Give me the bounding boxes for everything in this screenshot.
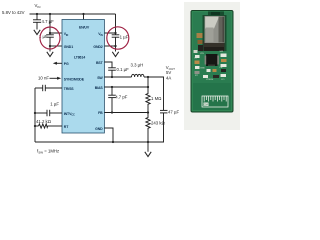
junction (C6 top)	[111, 86, 113, 88]
wire to left ground	[49, 46, 51, 52]
capacitor C5 0.1uF BST	[104, 62, 129, 77]
junction (BST cap on SW)	[111, 76, 113, 78]
svg-text:1 MΩ: 1 MΩ	[151, 96, 161, 101]
wire EN/UV drop	[83, 14, 85, 20]
wire to right ground	[115, 46, 117, 52]
inductor shadow	[203, 15, 227, 51]
photo backdrop	[184, 2, 240, 130]
capacitor CIN 4.7uF	[33, 14, 54, 30]
arrow into SYNC/MODE	[50, 77, 62, 80]
wire VIN rail	[30, 13, 116, 15]
svg-text:243 kΩ: 243 kΩ	[151, 120, 165, 125]
svg-text:5V: 5V	[166, 70, 171, 75]
arrow PG output	[53, 62, 62, 65]
svg-text:5.8V to 42V: 5.8V to 42V	[2, 10, 25, 15]
junction (C6 bottom)	[111, 111, 113, 113]
capacitor C3 10nF TR/SS	[35, 85, 62, 91]
svg-text:EN/UV: EN/UV	[79, 25, 90, 29]
capacitor COUT 47uF	[160, 109, 179, 142]
svg-text:4.7 pF: 4.7 pF	[115, 95, 128, 100]
capacitor C2 1uF right hot loop	[112, 33, 129, 46]
IC U1 LT8614	[62, 20, 104, 134]
resistor R2 1M	[146, 87, 162, 113]
svg-text:BIAS: BIAS	[95, 86, 104, 90]
junction (rail EN/UV)	[82, 13, 84, 15]
wire VOUT to BIAS	[147, 77, 149, 87]
label fSW = 1MHz	[37, 149, 59, 155]
scattered passives and silkscreen	[195, 55, 200, 58]
silkscreen text specks	[194, 51, 225, 81]
svg-text:1 µF: 1 µF	[50, 102, 59, 107]
PCB board	[191, 11, 233, 113]
svg-text:4.7 µF: 4.7 µF	[42, 19, 55, 24]
svg-text:GND1: GND1	[64, 45, 73, 49]
junction (rail left hot loop)	[49, 13, 51, 15]
wire GND2 row	[104, 45, 115, 47]
junction (GND stub on bus)	[112, 141, 114, 143]
resistor R3 243k	[146, 113, 165, 143]
svg-text:TR/SS: TR/SS	[64, 87, 74, 91]
svg-text:VIN: VIN	[200, 53, 204, 55]
svg-text:GND: GND	[95, 127, 103, 131]
svg-text:41.2 kΩ: 41.2 kΩ	[36, 119, 51, 124]
capacitor C1 1uF left hot loop	[39, 33, 54, 46]
svg-text:LT8614: LT8614	[206, 79, 214, 81]
hot loop highlight left	[40, 27, 60, 49]
wire VIN rail to left VIN pin	[50, 14, 62, 33]
ground (main)	[145, 142, 151, 157]
junction (right GND2)	[114, 45, 116, 47]
svg-text:SW: SW	[97, 76, 103, 80]
wire FB row	[104, 112, 148, 114]
inductor base	[204, 41, 225, 51]
wire BIAS row	[104, 86, 148, 88]
wire left ground rail	[34, 88, 36, 142]
svg-text:FB: FB	[98, 111, 103, 115]
IC chip	[206, 54, 218, 66]
junction (FB node)	[147, 111, 149, 113]
svg-text:BST: BST	[96, 61, 104, 65]
junction (BIAS-VOUT)	[147, 86, 149, 88]
wire GND1 row	[50, 45, 62, 47]
svg-text:3.3 µH: 3.3 µH	[131, 63, 144, 68]
capacitor C6 4.7pF feedforward	[108, 87, 128, 113]
photo: PCB module	[184, 2, 240, 130]
wire ground bus	[35, 141, 164, 143]
svg-text:1 µF: 1 µF	[120, 34, 129, 39]
svg-text:LT8614: LT8614	[74, 56, 85, 60]
hot loop highlight right	[107, 27, 129, 49]
inductor body	[205, 16, 225, 43]
junction (left GND1)	[49, 45, 51, 47]
svg-text:PG: PG	[64, 62, 69, 66]
svg-text:47 µF: 47 µF	[168, 109, 179, 114]
label VOUT 5V 4A	[166, 65, 175, 81]
small parts left of inductor	[197, 33, 203, 38]
ground (right hot loop)	[112, 52, 118, 57]
wire SW row	[104, 76, 131, 78]
junction (rail input cap)	[36, 13, 38, 15]
svg-text:4A: 4A	[166, 75, 171, 80]
svg-text:CM: CM	[204, 103, 208, 107]
ground (left hot loop)	[47, 52, 53, 57]
junction (R3 on bus)	[147, 141, 149, 143]
junction (left VIN pin)	[49, 32, 51, 34]
resistor R1 41.2k RT	[35, 119, 62, 128]
top edge component	[208, 12, 224, 16]
node VIN input labels	[2, 3, 40, 15]
ruler silkscreen	[202, 96, 228, 107]
capacitor C4 1uF INTVCC	[35, 102, 62, 117]
wire GND pin stub	[104, 128, 113, 142]
svg-text:SYNC/MODE: SYNC/MODE	[64, 77, 85, 81]
wire VOUT row	[144, 77, 164, 110]
junction (RT rail)	[34, 125, 36, 127]
inductor L1 3.3uH	[131, 63, 144, 78]
svg-text:GND2: GND2	[93, 45, 102, 49]
svg-text:CO: CO	[221, 79, 225, 81]
svg-text:GND: GND	[200, 68, 205, 70]
svg-text:0.1 µF: 0.1 µF	[117, 67, 130, 72]
junction (INTVCC rail)	[34, 112, 36, 114]
label 10nF	[38, 75, 49, 80]
ground (input cap)	[34, 30, 40, 35]
wire VIN rail to right VIN pin	[104, 14, 115, 33]
junction (VOUT node)	[147, 76, 149, 78]
junction (right VIN pin)	[114, 32, 116, 34]
svg-text:10 nF: 10 nF	[38, 75, 49, 80]
